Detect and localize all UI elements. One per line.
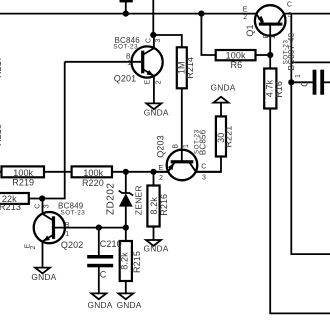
svg-text:B: B — [173, 144, 180, 149]
wire R216 bottom lead — [153, 227, 155, 241]
svg-text:100k: 100k — [226, 51, 246, 61]
svg-text:R217: R217 — [0, 56, 3, 78]
svg-text:BC807-40: BC807-40 — [287, 32, 296, 70]
svg-text:GNDA: GNDA — [144, 108, 169, 118]
ground GNDA under R216 — [144, 240, 169, 254]
zener diode ZD202 — [105, 183, 143, 216]
wire capacitor C right lead — [324, 81, 330, 83]
svg-text:BC856: BC856 — [198, 129, 207, 155]
svg-text:C: C — [34, 204, 41, 209]
svg-text:SOT-23: SOT-23 — [61, 209, 86, 216]
svg-text:8.2k: 8.2k — [120, 252, 130, 270]
svg-text:R214: R214 — [185, 57, 195, 79]
wire Q1 base down through node to R16 — [269, 26, 271, 69]
resistor R214 1M (vertical) — [177, 47, 196, 88]
svg-text:GNDA: GNDA — [117, 300, 142, 310]
wire R16 bottom long down to bottom right edge — [270, 109, 330, 314]
svg-text:C: C — [145, 38, 152, 43]
wire node to R214 top — [153, 35, 182, 47]
wire horizontal R219/R220 row — [0, 171, 168, 173]
node R216 top / Q203 emitter — [150, 169, 156, 175]
svg-text:R220: R220 — [82, 178, 104, 188]
wire R221 bottom to Q203 collector — [196, 157, 221, 172]
ground GNDA under R215 — [117, 293, 142, 310]
svg-text:R215: R215 — [132, 251, 142, 273]
resistor R216 8.2k (vertical) — [147, 186, 169, 227]
svg-text:100k: 100k — [83, 168, 103, 178]
wire right column vertical — [291, 14, 330, 255]
svg-text:B: B — [65, 222, 70, 229]
svg-text:E: E — [243, 7, 248, 14]
wire left column vertical down to R213 node — [43, 62, 65, 199]
svg-text:E: E — [159, 165, 164, 172]
node R213 / Q202 collector — [39, 195, 45, 201]
node junction top rail / cropped resistor — [123, 11, 129, 17]
svg-text:1: 1 — [65, 231, 69, 238]
svg-text:2: 2 — [159, 175, 163, 182]
wire zener cathode up to node — [125, 172, 127, 193]
resistor R215 8.2k (vertical) — [120, 241, 142, 281]
svg-text:2: 2 — [243, 14, 247, 21]
svg-text:C210: C210 — [100, 239, 122, 249]
node Q202 base / C210 — [96, 225, 102, 231]
svg-text:SOT-23: SOT-23 — [113, 44, 138, 51]
node Q201 collector / R214 — [150, 32, 156, 38]
ground GNDA above R221 (flipped) — [211, 82, 236, 102]
wire vertical from top edge to node at y35 — [152, 0, 154, 35]
svg-text:ZD202: ZD202 — [105, 183, 116, 216]
svg-text:3: 3 — [202, 175, 206, 182]
wire top rail left of Q1 — [0, 13, 256, 15]
svg-text:R219: R219 — [12, 178, 34, 188]
svg-text:C: C — [300, 80, 310, 87]
resistor R219 100k — [2, 166, 45, 187]
wire R214 bottom to Q203 base — [181, 88, 183, 161]
svg-text:C: C — [287, 2, 292, 9]
capacitor C210 — [87, 239, 122, 279]
svg-text:8.2k: 8.2k — [149, 197, 159, 215]
svg-text:R16: R16 — [274, 81, 284, 98]
svg-text:1: 1 — [183, 144, 190, 148]
svg-text:R213: R213 — [0, 202, 21, 212]
transistor Q1 BC807-40 — [243, 2, 296, 71]
svg-text:GNDA: GNDA — [211, 82, 236, 92]
transistor Q202 BC849 — [24, 199, 85, 268]
svg-text:1: 1 — [127, 60, 131, 67]
svg-text:GNDA: GNDA — [88, 300, 113, 310]
wire C210 top lead — [98, 228, 100, 255]
wire R215 bottom lead — [125, 281, 127, 293]
wire R216 top lead — [153, 172, 155, 186]
svg-text:ZENER: ZENER — [134, 185, 144, 215]
svg-text:R6: R6 — [231, 60, 243, 70]
svg-text:2: 2 — [155, 80, 162, 84]
resistor R6 100k — [216, 50, 256, 70]
wire top rail right of Q1 (collector) — [284, 13, 330, 15]
node R6 / Q1 base / R16 — [267, 52, 273, 58]
svg-text:Q202: Q202 — [61, 240, 83, 250]
ground GNDA under C210 — [88, 293, 113, 310]
wire Q201 base from left column — [65, 61, 141, 63]
svg-text:3: 3 — [288, 12, 292, 19]
resistor R16 4.7k (vertical) — [264, 69, 284, 109]
svg-text:GNDA: GNDA — [144, 244, 169, 254]
wire R221 top lead — [220, 103, 222, 117]
wire branch to right edge at y62 — [291, 61, 330, 63]
svg-text:B: B — [263, 33, 270, 38]
node top rail / R6 feed — [198, 11, 204, 17]
svg-text:R218: R218 — [0, 124, 3, 146]
resistor R220 100k — [72, 166, 112, 187]
svg-text:R221: R221 — [224, 126, 234, 148]
wire capacitor C left lead — [291, 81, 312, 83]
wire Q202 base row — [54, 227, 126, 229]
svg-text:3: 3 — [155, 38, 162, 42]
svg-text:GNDA: GNDA — [31, 272, 56, 282]
svg-text:100k: 100k — [13, 168, 33, 178]
svg-text:3: 3 — [43, 204, 50, 208]
resistor (cropped at top edge) — [120, 0, 133, 2]
svg-text:E: E — [145, 80, 152, 85]
ground GNDA under Q201 — [144, 103, 169, 117]
wire R6 to Q1 base node — [256, 54, 271, 56]
resistor R221 30 (vertical) — [216, 116, 234, 156]
svg-text:C: C — [100, 269, 107, 279]
transistor Q203 BC856 — [154, 129, 222, 182]
ground GNDA under Q202 — [31, 268, 56, 283]
svg-text:Q201: Q201 — [114, 74, 136, 84]
capacitor C (right edge) — [295, 70, 324, 95]
wire R213 lead to node — [29, 198, 43, 200]
node R220 / zener top — [123, 169, 129, 175]
wire zener anode down to node — [125, 207, 127, 228]
wire R215 top lead — [125, 228, 127, 241]
svg-text:2: 2 — [30, 245, 37, 249]
wire C210 bottom lead — [98, 267, 100, 293]
wire R6 feed from top rail — [201, 14, 215, 55]
svg-text:C: C — [201, 164, 206, 171]
node zener bottom / R215 top — [123, 225, 129, 231]
svg-text:1: 1 — [295, 74, 302, 78]
svg-text:1: 1 — [270, 35, 277, 39]
svg-text:R216: R216 — [159, 194, 169, 216]
node right column / capacitor C — [288, 79, 294, 85]
svg-text:Q1: Q1 — [245, 24, 255, 36]
wire from cropped resistor down — [125, 1, 127, 14]
resistor R213 22k (cropped at left) — [0, 193, 29, 212]
transistor Q201 BC846 — [113, 35, 162, 103]
svg-text:Q203: Q203 — [155, 135, 165, 157]
